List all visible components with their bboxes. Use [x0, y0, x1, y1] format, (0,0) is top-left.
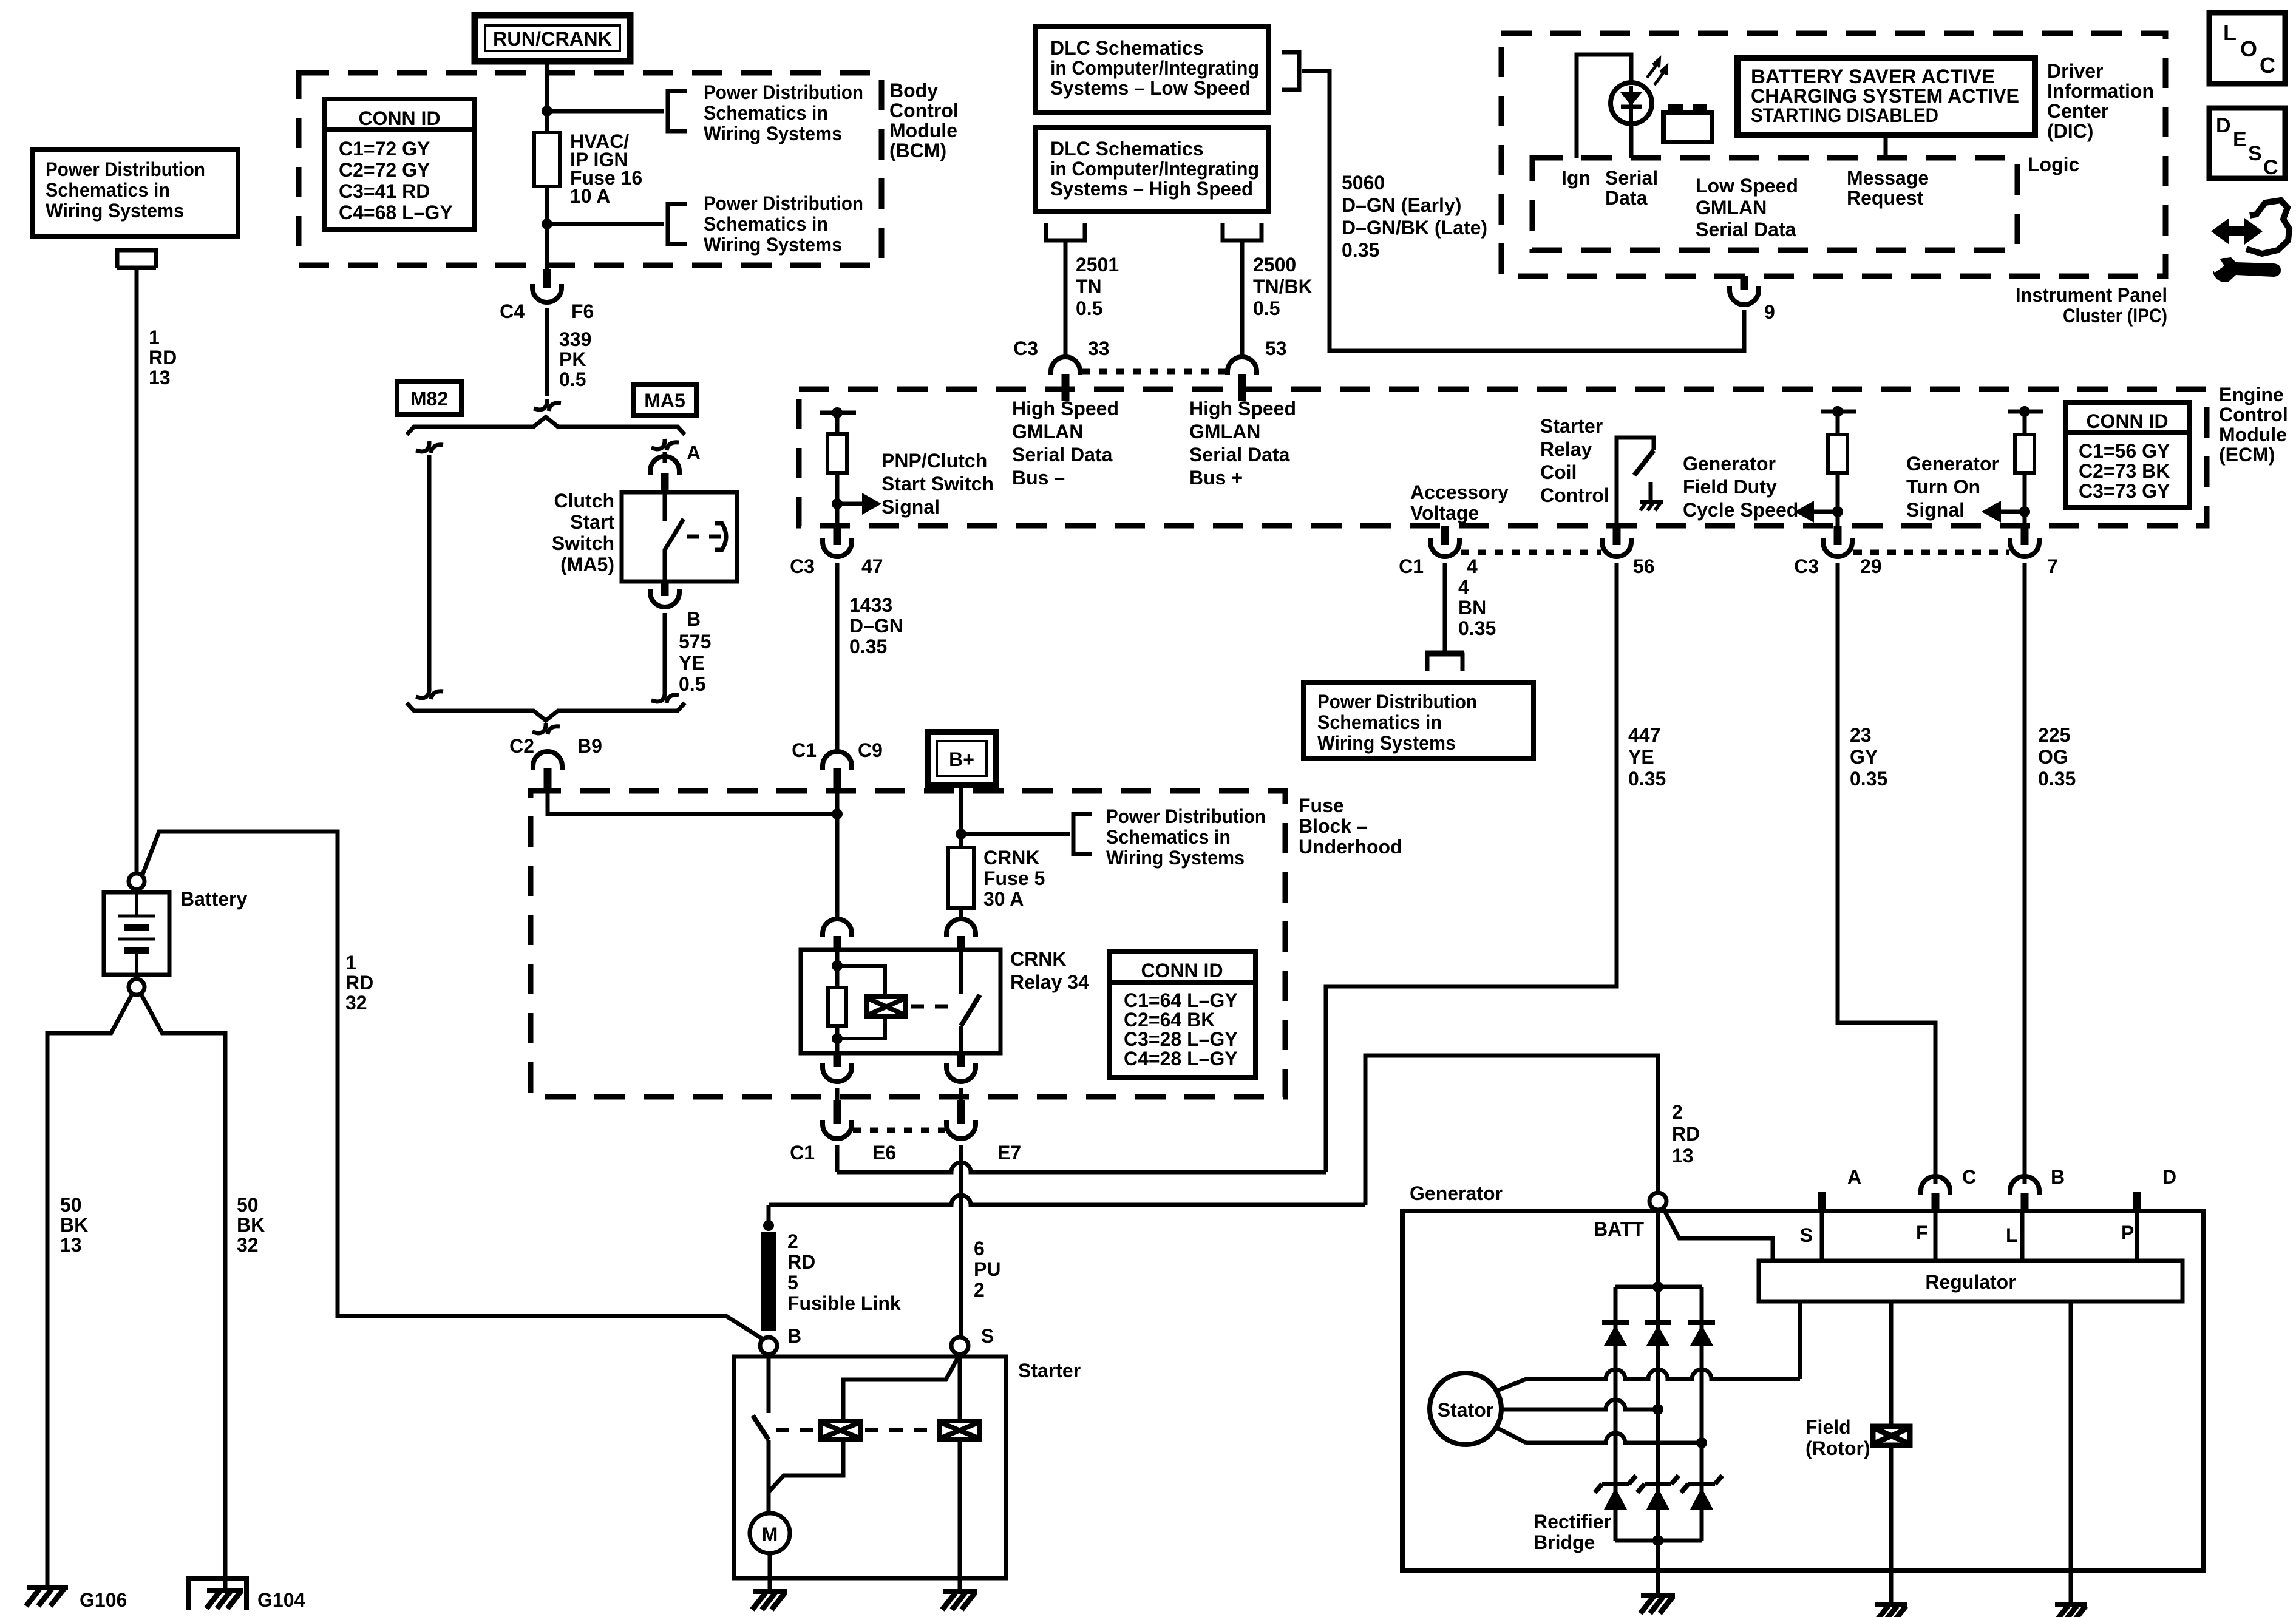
svg-text:F: F	[1916, 1222, 1928, 1244]
svg-text:Instrument Panel: Instrument Panel	[2016, 284, 2167, 306]
svg-text:0.35: 0.35	[2038, 768, 2076, 790]
svg-text:Serial: Serial	[1605, 167, 1658, 189]
wire fusible link to generator BATT	[767, 1205, 771, 1225]
svg-text:Engine: Engine	[2219, 384, 2284, 405]
svg-text:10 A: 10 A	[570, 185, 610, 207]
svg-text:DLC Schematics: DLC Schematics	[1050, 138, 1204, 160]
svg-text:MA5: MA5	[644, 390, 685, 412]
svg-text:Schematics in: Schematics in	[46, 179, 170, 201]
connector A	[650, 456, 679, 475]
svg-text:Turn On: Turn On	[1906, 476, 1980, 498]
svg-text:Bus +: Bus +	[1189, 467, 1243, 489]
stator	[1430, 1373, 1501, 1445]
wire 4 BN 0.35	[1443, 563, 1447, 651]
connector E7 stub	[957, 1100, 965, 1124]
svg-text:30 A: 30 A	[983, 888, 1024, 910]
svg-text:PU: PU	[974, 1258, 1000, 1280]
starter terminal S	[951, 1337, 968, 1354]
svg-text:0.5: 0.5	[1076, 297, 1102, 319]
wire winding 1 to motor	[769, 1440, 843, 1492]
MA5 connector box	[633, 384, 696, 416]
svg-text:Data: Data	[1605, 187, 1648, 209]
rectifier ground	[1656, 1541, 1660, 1579]
svg-text:Bridge: Bridge	[1533, 1531, 1595, 1553]
svg-text:L: L	[2006, 1224, 2018, 1246]
svg-text:Schematics in: Schematics in	[704, 213, 828, 235]
rectifier lower diode 3	[1688, 1482, 1715, 1486]
svg-text:Signal: Signal	[881, 496, 940, 518]
svg-text:Rectifier: Rectifier	[1533, 1511, 1611, 1533]
relay switch	[959, 950, 963, 994]
bracket lower Power Distribution reference	[668, 204, 687, 244]
BCM CONN ID table	[325, 99, 474, 229]
svg-text:D–GN: D–GN	[849, 615, 903, 637]
MA5 branch hooks	[651, 439, 665, 449]
Power Distribution reference box (top left)	[32, 150, 238, 236]
svg-text:Cluster (IPC): Cluster (IPC)	[2063, 305, 2167, 327]
svg-text:Wiring Systems: Wiring Systems	[704, 123, 842, 144]
ECM generator field duty resistor	[1821, 410, 1856, 414]
bracket DLC low speed	[1282, 52, 1299, 90]
svg-text:O: O	[2240, 36, 2257, 61]
regulator lamp ground wire	[2069, 1301, 2073, 1589]
wire switch to motor	[767, 1440, 771, 1513]
svg-text:Relay 34: Relay 34	[1010, 971, 1089, 993]
connector 7 stub	[2021, 526, 2029, 545]
wire L to regulator	[2020, 1213, 2025, 1261]
svg-text:P: P	[2121, 1222, 2134, 1244]
svg-text:225: 225	[2038, 724, 2070, 746]
svg-text:13: 13	[60, 1234, 82, 1256]
svg-text:C1: C1	[790, 1142, 815, 1164]
svg-text:Field: Field	[1805, 1416, 1851, 1438]
svg-text:D–GN (Early): D–GN (Early)	[1342, 194, 1461, 216]
relay pin connector bottom right	[957, 1053, 965, 1067]
svg-text:Underhood: Underhood	[1299, 836, 1402, 858]
connector 56	[1602, 538, 1631, 557]
svg-text:1433: 1433	[849, 594, 892, 616]
rectifier negative bus	[1615, 1539, 1702, 1543]
wire RUN/CRANK to fuse	[545, 61, 549, 269]
clutch switch blade	[665, 519, 684, 581]
DLC Schematics box low speed	[1036, 27, 1269, 112]
ECM dashed box	[799, 389, 2207, 526]
ECM CONN ID table	[2066, 402, 2189, 507]
svg-text:575: 575	[679, 631, 711, 653]
relay coil	[835, 950, 840, 1053]
svg-text:Serial Data: Serial Data	[1189, 444, 1290, 466]
svg-text:in Computer/Integrating: in Computer/Integrating	[1050, 158, 1259, 180]
bracket accessory voltage reference	[1425, 651, 1464, 655]
BCM dashed box	[299, 73, 881, 265]
svg-text:GMLAN: GMLAN	[1012, 421, 1083, 442]
wire B+ to CRNK fuse	[959, 785, 963, 847]
battery positive terminal	[129, 873, 144, 889]
svg-text:Power Distribution: Power Distribution	[1317, 691, 1477, 713]
svg-text:B: B	[787, 1325, 801, 1347]
svg-text:C2: C2	[509, 735, 534, 757]
Regulator box	[1759, 1261, 2182, 1301]
wire battery negative split	[47, 994, 132, 1585]
svg-text:PK: PK	[559, 348, 586, 370]
svg-text:C1=56 GY: C1=56 GY	[2079, 440, 2170, 462]
ECM generator turn-on resistor	[2008, 410, 2043, 414]
connector 56 stub	[1613, 526, 1621, 545]
junction node BCM feed upper	[542, 106, 552, 117]
field rotor winding	[1889, 1301, 1894, 1426]
svg-text:C: C	[1962, 1166, 1976, 1188]
IPC logic dashed box	[1532, 158, 2017, 250]
svg-text:L: L	[2223, 20, 2237, 45]
wire MA5 A	[663, 452, 667, 463]
wire fuse to relay	[959, 908, 963, 918]
ECM field duty arrow	[1832, 506, 1843, 517]
svg-text:53: 53	[1265, 337, 1287, 359]
Power Distribution reference box (accessory voltage)	[1303, 683, 1533, 759]
svg-text:B+: B+	[949, 748, 974, 770]
connector B stub	[661, 581, 669, 596]
svg-text:Systems – High Speed: Systems – High Speed	[1050, 178, 1253, 200]
svg-text:0.5: 0.5	[559, 368, 586, 390]
svg-text:B: B	[2051, 1166, 2065, 1188]
svg-text:2500: 2500	[1253, 254, 1296, 276]
bracket DLC bus plus	[1223, 223, 1262, 240]
svg-text:339: 339	[559, 328, 591, 350]
svg-text:Request: Request	[1847, 187, 1924, 209]
connector B	[650, 589, 679, 607]
Clutch Start Switch box	[622, 492, 737, 581]
rectifier positive bus	[1615, 1285, 1702, 1289]
starter solenoid winding 1	[821, 1421, 860, 1440]
starter solenoid dashes	[865, 1428, 935, 1432]
ground G104	[223, 1577, 228, 1590]
svg-text:(DIC): (DIC)	[2047, 120, 2093, 142]
bracket DLC bus minus	[1046, 223, 1085, 240]
battery negative terminal	[129, 979, 144, 995]
ECM stub bus plus	[1238, 378, 1246, 401]
wire LED to logic box	[1629, 124, 1634, 158]
wire 5060 serial data to IPC	[1302, 71, 1744, 351]
connector 7	[2010, 538, 2039, 557]
svg-text:9: 9	[1764, 301, 1775, 323]
connector E7	[946, 1120, 976, 1139]
svg-text:YE: YE	[1628, 746, 1654, 768]
CRNK Relay box	[801, 950, 1000, 1053]
svg-text:0.5: 0.5	[1253, 297, 1280, 319]
relay pin connector top left	[823, 919, 852, 937]
relay pin connector bottom left	[834, 1053, 841, 1067]
svg-text:0.35: 0.35	[1850, 768, 1887, 790]
svg-text:Coil: Coil	[1540, 461, 1577, 483]
svg-text:BN: BN	[1458, 597, 1486, 619]
connector 9 stub	[1741, 276, 1748, 290]
svg-text:Power Distribution: Power Distribution	[704, 192, 863, 214]
regulator ground	[2069, 1589, 2073, 1605]
junction relay coil feed	[832, 808, 843, 819]
svg-text:2: 2	[787, 1230, 798, 1252]
DESC icon	[2209, 108, 2285, 178]
dotted connector link C1/4 to 56	[1461, 550, 1601, 555]
svg-text:C3: C3	[1794, 555, 1819, 577]
svg-text:Schematics in: Schematics in	[704, 102, 828, 124]
wire 1 RD 13 battery feed	[135, 268, 139, 874]
harness split brace bottom	[407, 703, 685, 720]
svg-text:GY: GY	[1850, 746, 1878, 768]
DIC message box	[1737, 58, 2035, 135]
junction B+ distribution	[956, 829, 966, 839]
svg-text:Bus –: Bus –	[1012, 467, 1065, 489]
wire 2500 TN/BK 0.5	[1240, 240, 1245, 358]
svg-text:C1=64 L–GY: C1=64 L–GY	[1124, 989, 1238, 1011]
svg-text:C4: C4	[500, 300, 525, 322]
battery	[104, 892, 169, 975]
svg-text:CHARGING SYSTEM ACTIVE: CHARGING SYSTEM ACTIVE	[1751, 85, 2019, 107]
svg-text:Generator: Generator	[1410, 1182, 1503, 1204]
wire S winding to ground	[958, 1354, 962, 1421]
svg-text:Fuse 5: Fuse 5	[983, 867, 1045, 889]
connector C2/B9 stub	[544, 768, 552, 791]
wire relay pins to fuse block edge	[835, 1088, 840, 1100]
svg-text:Stator: Stator	[1438, 1399, 1493, 1421]
svg-text:Control: Control	[1540, 484, 1609, 506]
svg-text:D–GN/BK (Late): D–GN/BK (Late)	[1342, 217, 1487, 239]
svg-text:CRNK: CRNK	[983, 847, 1039, 869]
svg-text:Cycle Speed: Cycle Speed	[1683, 499, 1798, 521]
wire P to regulator	[2135, 1213, 2139, 1261]
svg-text:Generator: Generator	[1906, 453, 1999, 475]
dotted connector link 29-7	[1853, 550, 2009, 555]
svg-text:TN/BK: TN/BK	[1253, 276, 1313, 297]
svg-text:RD: RD	[1672, 1123, 1700, 1145]
svg-text:32: 32	[345, 992, 367, 1014]
svg-text:Power Distribution: Power Distribution	[1106, 805, 1266, 827]
wire Ign to LED	[1577, 55, 1631, 158]
svg-text:0.5: 0.5	[679, 673, 705, 695]
generator terminal BATT	[1649, 1193, 1666, 1210]
wire 225 OG 0.35	[2023, 563, 2027, 1184]
svg-text:33: 33	[1088, 337, 1110, 359]
svg-text:E7: E7	[997, 1142, 1021, 1164]
wire 23 GY 0.35	[1838, 563, 1935, 1184]
svg-text:G104: G104	[257, 1589, 305, 1611]
svg-text:C1=72 GY: C1=72 GY	[339, 138, 430, 160]
svg-text:1: 1	[149, 327, 160, 348]
LED arrows	[1647, 63, 1665, 85]
wire 447 YE 0.35	[1326, 563, 1617, 1172]
bracket Power Distribution (fuse block)	[1073, 814, 1092, 854]
wire 2501 TN 0.5	[1064, 240, 1068, 358]
svg-text:0.35: 0.35	[1458, 617, 1496, 639]
svg-text:(ECM): (ECM)	[2219, 444, 2275, 466]
svg-text:Module: Module	[889, 120, 957, 141]
inline connector below split	[532, 723, 546, 733]
rectifier upper diode 1	[1614, 1287, 1618, 1323]
svg-text:Generator: Generator	[1683, 453, 1776, 475]
svg-text:YE: YE	[679, 652, 705, 674]
wire E7 to starter S	[959, 1145, 963, 1337]
svg-text:Wiring Systems: Wiring Systems	[1106, 847, 1245, 869]
svg-text:M82: M82	[410, 388, 448, 410]
connector E6 stub	[834, 1100, 841, 1124]
M82 branch wire	[427, 455, 432, 690]
svg-text:Field Duty: Field Duty	[1683, 476, 1777, 498]
svg-text:C3=73 GY: C3=73 GY	[2079, 480, 2170, 502]
svg-text:13: 13	[149, 367, 171, 388]
ECM PNP pullup resistor	[820, 411, 856, 415]
connector C4/F6	[532, 284, 562, 302]
rectifier upper diode 2	[1656, 1287, 1660, 1323]
wire E6 to ECM 447	[837, 1162, 1326, 1172]
svg-text:D: D	[2216, 114, 2231, 137]
svg-text:PNP/Clutch: PNP/Clutch	[881, 450, 987, 472]
wire to Power Distribution reference (fuse block)	[961, 832, 1070, 836]
svg-text:Accessory: Accessory	[1410, 481, 1509, 503]
svg-text:(BCM): (BCM)	[889, 140, 946, 161]
starter switch dashes	[776, 1428, 816, 1432]
svg-text:C: C	[2263, 156, 2278, 179]
generator terminal D stub	[2133, 1192, 2141, 1211]
svg-text:C: C	[2260, 53, 2275, 78]
fuse CRNK Fuse 5 30 A	[948, 847, 974, 908]
svg-text:CONN ID: CONN ID	[358, 107, 440, 129]
junction node BCM feed lower	[542, 219, 552, 229]
dotted connector link E6-E7	[853, 1128, 945, 1133]
svg-text:5060: 5060	[1342, 172, 1385, 194]
wire 575 YE 0.5	[663, 613, 667, 693]
svg-text:B: B	[687, 608, 701, 630]
connector C1/C9 stub	[834, 768, 841, 791]
ground G104 bracket	[188, 1578, 246, 1610]
svg-text:Start: Start	[570, 511, 614, 533]
svg-text:Body: Body	[889, 80, 938, 101]
svg-text:Wiring Systems: Wiring Systems	[1317, 732, 1456, 754]
svg-text:32: 32	[237, 1234, 259, 1256]
svg-text:2: 2	[1672, 1101, 1683, 1123]
ECM stub bus minus	[1062, 378, 1070, 401]
svg-text:C1: C1	[1399, 555, 1424, 577]
svg-text:Logic: Logic	[2028, 154, 2079, 175]
svg-text:C2=73 BK: C2=73 BK	[2079, 460, 2170, 482]
harness split brace top	[407, 417, 685, 435]
connector C1/C9	[823, 751, 852, 770]
wire to upper Power Distribution reference	[547, 109, 664, 114]
relay solenoid symbol	[867, 997, 906, 1017]
svg-text:C1: C1	[792, 739, 817, 761]
connector C2/B9	[533, 751, 562, 770]
svg-text:A: A	[1847, 1166, 1861, 1188]
svg-text:Regulator: Regulator	[1925, 1271, 2016, 1293]
svg-text:(Rotor): (Rotor)	[1805, 1437, 1870, 1459]
fuse HVAC/IP IGN Fuse 16 10 A	[534, 132, 560, 186]
svg-text:M: M	[762, 1524, 778, 1545]
svg-text:RD: RD	[787, 1251, 815, 1273]
wire F to regulator	[1934, 1213, 1938, 1261]
connector 9	[1730, 286, 1759, 305]
svg-text:Message: Message	[1847, 167, 1929, 189]
svg-text:Information: Information	[2047, 80, 2154, 102]
svg-text:S: S	[1800, 1224, 1813, 1246]
starter motor ground	[768, 1553, 772, 1578]
svg-text:29: 29	[1860, 555, 1882, 577]
svg-text:BATT: BATT	[1594, 1218, 1644, 1240]
rectifier lower diode 2	[1645, 1482, 1671, 1486]
svg-text:C3: C3	[1013, 337, 1038, 359]
starter terminal B	[760, 1337, 777, 1354]
svg-text:D: D	[2162, 1166, 2176, 1188]
off-page bracket under Power Distribution box	[117, 250, 156, 268]
wire BATT to regulator	[1663, 1209, 1773, 1261]
svg-text:Schematics in: Schematics in	[1317, 711, 1442, 733]
connector C4/F6 stub	[543, 269, 551, 288]
wire to lower Power Distribution reference	[547, 222, 664, 226]
svg-text:CONN ID: CONN ID	[1141, 960, 1223, 981]
svg-text:7: 7	[2047, 555, 2058, 577]
svg-text:Starter: Starter	[1018, 1360, 1081, 1381]
svg-text:1: 1	[345, 952, 356, 974]
wire C9 to relay coil	[835, 791, 840, 918]
clutch switch actuator arc	[715, 523, 726, 550]
ECM driver internal ground	[1649, 482, 1653, 501]
starter motor	[750, 1513, 790, 1553]
svg-text:RUN/CRANK: RUN/CRANK	[493, 28, 612, 50]
svg-text:Battery: Battery	[180, 888, 247, 910]
connector C3/29 stub	[1834, 526, 1842, 545]
svg-text:C3=41 RD: C3=41 RD	[339, 180, 430, 202]
rectifier upper diode 3	[1700, 1287, 1704, 1323]
svg-text:Control: Control	[889, 100, 959, 121]
svg-text:OG: OG	[2038, 746, 2068, 768]
field ground	[1889, 1589, 1894, 1605]
svg-text:Serial Data: Serial Data	[1012, 444, 1113, 466]
connector A stub	[661, 473, 669, 493]
svg-text:RD: RD	[345, 972, 373, 994]
connector C1/4	[1430, 538, 1459, 557]
svg-text:13: 13	[1672, 1145, 1694, 1167]
B+ power feed box	[928, 732, 996, 785]
svg-text:CRNK: CRNK	[1010, 948, 1066, 970]
svg-text:BK: BK	[237, 1214, 265, 1236]
generator terminal A stub	[1818, 1192, 1826, 1211]
svg-text:56: 56	[1633, 555, 1655, 577]
svg-text:E: E	[2233, 128, 2247, 151]
relay pin connector top right	[946, 919, 976, 937]
Generator box	[1402, 1211, 2204, 1571]
wire 339 PK 0.5	[545, 308, 549, 396]
Fuse Block Underhood dashed box	[531, 791, 1285, 1097]
battery telltale icon	[1663, 112, 1712, 142]
fusible link	[761, 1232, 776, 1331]
svg-text:STARTING DISABLED: STARTING DISABLED	[1751, 104, 1938, 126]
wire BATT to rectifier	[1656, 1210, 1660, 1287]
svg-text:Low Speed: Low Speed	[1696, 175, 1798, 197]
svg-text:C2=72 GY: C2=72 GY	[339, 159, 430, 181]
svg-text:S: S	[981, 1325, 994, 1347]
svg-text:F6: F6	[571, 300, 594, 322]
connector C3/29	[1823, 538, 1852, 557]
wire DIC to logic	[1884, 135, 1888, 158]
indicator LED	[1611, 83, 1652, 124]
svg-text:Serial Data: Serial Data	[1696, 219, 1796, 240]
svg-text:0.35: 0.35	[1628, 768, 1666, 790]
svg-text:5: 5	[787, 1272, 798, 1293]
clutch switch actuator dashes	[687, 535, 724, 539]
connector 53	[1228, 357, 1257, 375]
svg-text:6: 6	[974, 1238, 985, 1259]
svg-text:Block –: Block –	[1299, 815, 1368, 837]
stator phase 2 wire	[1501, 1400, 1658, 1409]
svg-text:(MA5): (MA5)	[560, 554, 614, 575]
connector C3/47 stub	[834, 526, 841, 545]
